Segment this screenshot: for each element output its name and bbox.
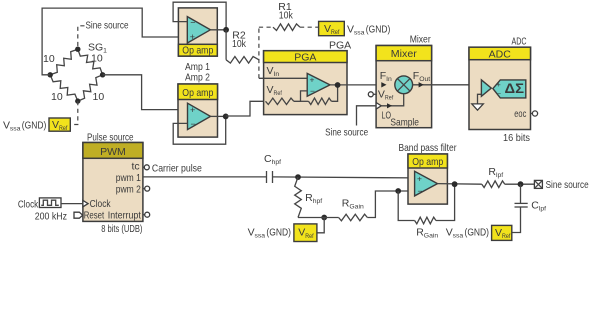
svg-text:10k: 10k [232, 38, 247, 50]
svg-text:V: V [378, 88, 385, 100]
svg-text:(GND): (GND) [366, 24, 391, 36]
svg-text:200 kHz: 200 kHz [35, 210, 67, 222]
delta sigma pentagon [493, 80, 526, 98]
svg-text:ssa: ssa [10, 126, 21, 133]
resistor Rhpf [295, 177, 302, 217]
wire sine source dashed to bridge top [78, 26, 85, 49]
wire dashed node to R1 [258, 27, 260, 78]
node Chpf [295, 174, 301, 180]
svg-text:V: V [324, 23, 331, 35]
svg-text:16 bits: 16 bits [503, 132, 530, 144]
buffer triangle ADC [481, 80, 491, 96]
svg-text:8 bits (UDB): 8 bits (UDB) [101, 223, 142, 235]
svg-text:tc: tc [132, 161, 140, 173]
resistor bridge SG1 bottom-left 10 [50, 75, 78, 101]
svg-text:Clock: Clock [18, 198, 39, 210]
resistor bridge SG1 top-right 10 [78, 49, 103, 75]
svg-text:Ref: Ref [305, 233, 313, 240]
wire bridge right node to Amp2 + input [103, 75, 188, 110]
svg-text:+: + [190, 32, 195, 42]
svg-text:Sine source: Sine source [86, 20, 129, 32]
resistor PGA feedback R [301, 100, 309, 102]
svg-text:Ref: Ref [385, 95, 393, 102]
resistor bridge SG1 bottom-right 10 [78, 75, 103, 101]
wire Amp2 output [211, 115, 226, 117]
resistor Rlpf [482, 181, 505, 188]
resistor R1 10k [273, 24, 300, 31]
node Rlpf [518, 181, 524, 187]
wire BPF output [438, 183, 482, 186]
svg-text:10: 10 [93, 91, 105, 103]
op-amp band pass filter block [408, 154, 447, 204]
svg-text:10k: 10k [279, 9, 294, 21]
svg-text:pwm 2: pwm 2 [116, 184, 141, 196]
wire Amp1 feedback loop [173, 2, 226, 30]
svg-text:Carrier pulse: Carrier pulse [152, 162, 202, 174]
svg-text:ADC: ADC [489, 48, 512, 60]
wire RGain to inv input [367, 191, 414, 218]
node PGA output [335, 82, 341, 88]
wire bridge left node to Amp1 + input [42, 8, 187, 75]
arrow LO [387, 103, 392, 108]
svg-text:Ref: Ref [274, 90, 282, 97]
node BPF output [452, 181, 458, 187]
svg-text:10: 10 [43, 53, 55, 65]
node Rhpf bottom [321, 215, 327, 221]
svg-text:Mixer: Mixer [410, 33, 431, 45]
mixer circle [395, 76, 413, 94]
wire PGA inv node [294, 91, 307, 101]
node bridge left [48, 72, 53, 77]
svg-text:Sample: Sample [390, 116, 419, 128]
svg-text:Reset: Reset [84, 210, 104, 222]
svg-text:ΔΣ: ΔΣ [505, 81, 525, 96]
svg-text:Mixer: Mixer [391, 48, 418, 60]
svg-text:Ref: Ref [59, 125, 67, 132]
node BPF inv [395, 188, 401, 194]
svg-text:pwm 1: pwm 1 [116, 172, 141, 184]
svg-text:+: + [310, 74, 315, 84]
wire dashed bridge bottom to VRef [71, 101, 78, 124]
resistor RGain feedback [415, 217, 436, 224]
svg-text:V: V [495, 227, 502, 239]
svg-text:ssa: ssa [453, 233, 464, 240]
resistor PGA input R [266, 98, 294, 104]
svg-text:Ref: Ref [502, 233, 510, 240]
wire Amp2 feedback loop [173, 116, 226, 144]
svg-text:(GND): (GND) [465, 227, 490, 239]
node bridge top [75, 47, 80, 52]
svg-text:+: + [497, 80, 501, 89]
ADC block [469, 47, 531, 129]
wire dashed R1 to VRef [300, 26, 319, 28]
svg-text:Ref: Ref [331, 29, 339, 36]
svg-text:Sine source: Sine source [546, 179, 589, 191]
svg-text:+: + [417, 173, 422, 183]
wire pwm1 to Chpf [143, 176, 267, 178]
op-amp U1 Amp 1 block [178, 8, 217, 57]
VRef box bridge [49, 118, 70, 131]
wire Clpf to VRef [512, 207, 521, 233]
svg-text:ADC: ADC [512, 35, 527, 47]
Mixer block [376, 46, 432, 128]
resistor bridge SG1 top-left 10 [50, 49, 78, 75]
wire node to VRef [317, 218, 324, 233]
VRef box mid [294, 224, 317, 242]
svg-text:Clock: Clock [90, 198, 112, 210]
svg-text:−: − [497, 89, 501, 98]
svg-text:ssa: ssa [354, 30, 365, 37]
svg-text:V: V [267, 84, 274, 96]
node Amp1 output [223, 27, 229, 33]
chevron LO input [376, 103, 381, 110]
wire PGA feedback to output [331, 85, 337, 101]
wire sine source to LO [357, 106, 377, 126]
wire Amp1 output [210, 29, 226, 31]
svg-text:(GND): (GND) [266, 227, 291, 239]
PGA block [264, 51, 347, 115]
wire LO to mixer [381, 94, 403, 106]
wire feedback to output [436, 184, 455, 220]
node Amp2 output [223, 114, 229, 120]
svg-text:V: V [52, 119, 59, 131]
wire VIn input [259, 77, 307, 79]
resistor RGain input [339, 214, 368, 221]
svg-text:−: − [190, 18, 195, 28]
svg-text:−: − [418, 186, 423, 196]
wire Amp2 output to PGA VRef input [226, 101, 266, 116]
svg-text:Amp 2: Amp 2 [185, 72, 210, 84]
capacitor Clpf [520, 184, 522, 203]
svg-text:PWM: PWM [100, 146, 126, 158]
svg-text:−: − [191, 119, 196, 129]
svg-text:Op amp: Op amp [182, 45, 213, 57]
svg-text:Interrupt: Interrupt [108, 210, 141, 222]
svg-text:PGA: PGA [294, 51, 316, 63]
op-amp U2 Amp 2 block [178, 84, 218, 137]
wire BPF feedback [398, 191, 414, 221]
ground ADC [478, 94, 482, 104]
VRef box right [492, 225, 512, 240]
resistor R2 10k [226, 57, 259, 64]
wire FOut [413, 84, 482, 86]
svg-text:+: + [190, 105, 195, 115]
node bridge right [100, 72, 105, 77]
PWM block [83, 143, 143, 222]
wire Rhpf node [298, 217, 339, 219]
arrow FOut [419, 82, 424, 87]
svg-text:Op amp: Op amp [182, 87, 213, 99]
node bridge bottom [75, 98, 80, 103]
svg-text:eoc: eoc [514, 108, 526, 120]
op-amp PGA internal [307, 73, 330, 96]
svg-text:Op amp: Op amp [412, 156, 443, 168]
arrow FIn [381, 82, 386, 87]
svg-text:Sine source: Sine source [325, 127, 368, 139]
wire PGA output [330, 84, 395, 86]
svg-text:(GND): (GND) [22, 120, 47, 132]
wire Chpf to opamp [273, 177, 415, 178]
svg-text:PGA: PGA [329, 40, 351, 52]
svg-text:10: 10 [91, 53, 103, 65]
terminal sine source crossed box [534, 180, 542, 188]
svg-text:10: 10 [51, 91, 63, 103]
wire Rlpf to terminal [505, 183, 535, 185]
capacitor Chpf [266, 171, 268, 183]
wire clock to PWM [61, 203, 83, 205]
VRef box R1 [319, 21, 345, 35]
terminal mixer VRef [373, 93, 377, 95]
svg-text:V: V [298, 227, 305, 239]
reset D symbol [74, 212, 83, 218]
svg-text:Band pass filter: Band pass filter [399, 142, 457, 154]
svg-text:ssa: ssa [255, 233, 266, 240]
svg-text:−: − [310, 86, 315, 96]
wire Amp1 output down to R2 [225, 30, 227, 60]
